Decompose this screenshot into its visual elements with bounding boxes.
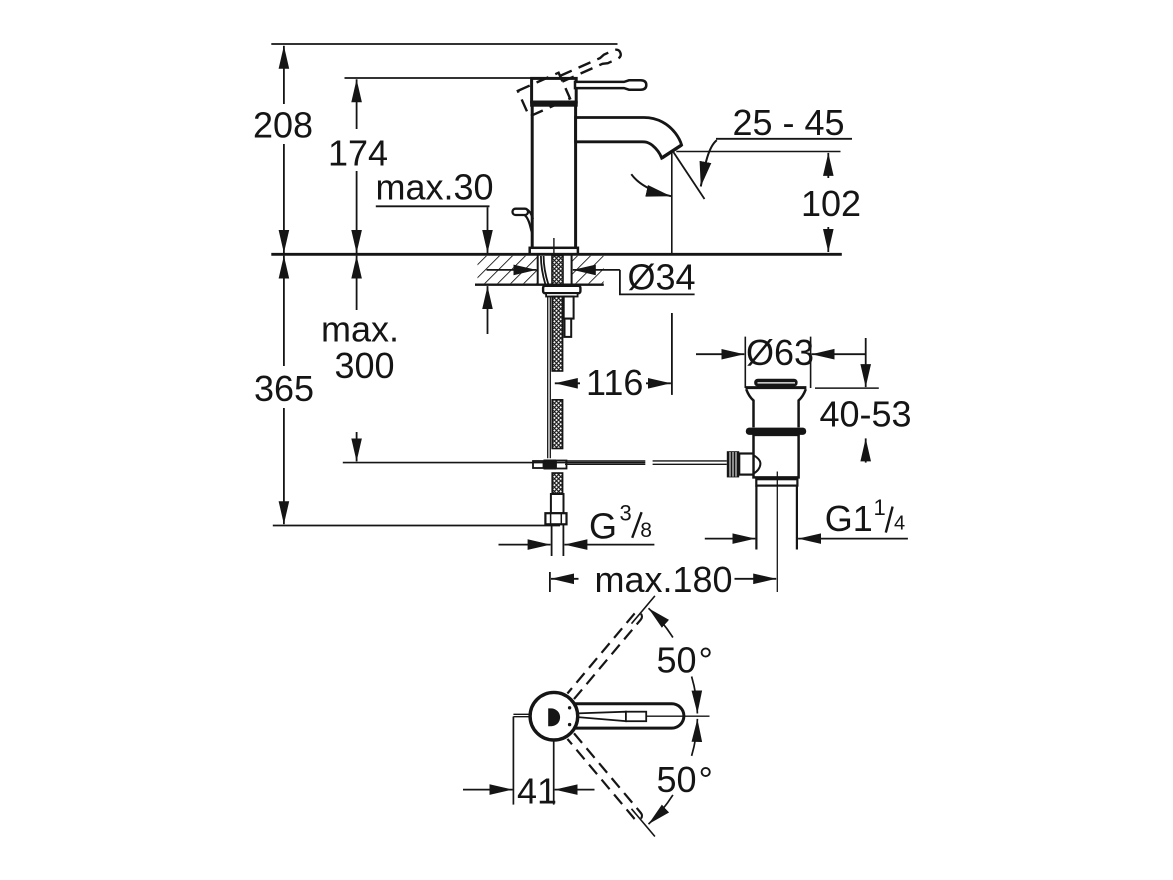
mounting nut (543, 286, 580, 293)
extension line down (632, 809, 655, 837)
max30 underline (376, 205, 490, 207)
stream angle line (674, 152, 705, 199)
116 vline (671, 313, 673, 395)
svg-text:50: 50 (657, 759, 697, 800)
horizontal pop-up linkage rod (565, 461, 727, 464)
counter hatch left (478, 256, 538, 284)
svg-text:max.30: max.30 (376, 167, 494, 208)
svg-text:116: 116 (586, 362, 643, 403)
G38 arrows (499, 544, 551, 546)
svg-text:Ø63: Ø63 (746, 332, 814, 373)
counter hole edges (538, 254, 572, 284)
hose in hole crosshatch (552, 256, 563, 285)
base flange (530, 248, 578, 254)
41 dim ticks (513, 714, 531, 716)
116 arrows (555, 382, 580, 384)
svg-text:40-53: 40-53 (820, 394, 912, 435)
25-45 underline (716, 138, 852, 140)
O63 extension lines (745, 337, 810, 388)
svg-text:max.180: max.180 (595, 559, 733, 600)
pop-up rod curve in hole (541, 256, 549, 285)
max180 left tick (549, 572, 551, 592)
svg-text:50: 50 (657, 640, 697, 681)
rod fitting (533, 461, 544, 468)
O34 arrows (487, 269, 537, 271)
outlet vertical extension line (671, 153, 673, 254)
svg-text:208: 208 (253, 105, 313, 146)
check valve (564, 297, 574, 319)
svg-text:Ø34: Ø34 (628, 257, 696, 298)
max300 reference line (343, 462, 646, 464)
hose band B (552, 400, 562, 449)
41 arrows (463, 789, 513, 791)
hose ferrule (551, 494, 564, 513)
counter top line (271, 253, 842, 256)
svg-text:25 - 45: 25 - 45 (733, 102, 845, 143)
102 top ref line (676, 151, 840, 153)
G3/8 nut (545, 513, 566, 524)
svg-text:1: 1 (874, 495, 886, 520)
hose band C (552, 473, 562, 494)
drain push button (754, 379, 797, 387)
svg-text:4: 4 (894, 513, 905, 535)
pop-up rod below counter (548, 285, 551, 459)
top view body circle (530, 692, 578, 740)
svg-text:max.: max. (321, 309, 399, 350)
drain flange top line (746, 386, 807, 389)
O34 leader (620, 270, 695, 295)
counter hatch right (572, 256, 604, 284)
50deg arc upper seg2 (692, 677, 698, 714)
max30 arrows (487, 207, 489, 253)
max180 arrows (551, 578, 579, 580)
dashed lever down 50deg (567, 733, 642, 820)
hose band A (552, 297, 562, 372)
drain flange sides (746, 389, 806, 427)
drain rubber seal (746, 428, 806, 435)
counter hole white around shank (538, 256, 572, 284)
drain collar (756, 479, 797, 485)
top view centerline (646, 715, 709, 717)
dim line 174 top (345, 77, 532, 79)
svg-text:8: 8 (640, 519, 652, 542)
spout (576, 118, 682, 159)
G114 arrows (705, 538, 756, 540)
svg-text:°: ° (699, 759, 713, 800)
spout end face (662, 145, 682, 158)
base centerline tick (553, 238, 555, 256)
knurled knob (727, 451, 739, 477)
svg-text:41: 41 (517, 770, 557, 811)
cap black band (530, 101, 578, 107)
102 vline (827, 153, 829, 178)
svg-text:365: 365 (254, 368, 314, 409)
top view handle (575, 704, 684, 728)
drain centerline (776, 472, 778, 593)
curved arrow 25-45 (701, 140, 717, 186)
handle inner slot (577, 712, 626, 722)
knob cylinder (739, 454, 753, 475)
dashed lever up 50deg (567, 612, 642, 699)
counter bottom line (475, 284, 604, 286)
50deg arc upper seg1 (649, 608, 673, 637)
50deg arc lower seg1 (649, 795, 673, 824)
ref line 365 bottom (273, 525, 560, 527)
svg-text:102: 102 (801, 183, 861, 224)
svg-text:°: ° (699, 640, 713, 681)
faucet body (532, 107, 575, 248)
faucet cartridge cap (532, 78, 577, 102)
extension line up (632, 596, 655, 624)
pop-up knob on body (513, 209, 529, 215)
dim vline 174/max300 (356, 79, 358, 129)
circle dots (568, 706, 571, 709)
40-53 vline arrows (865, 338, 867, 387)
svg-text:G: G (589, 505, 617, 546)
dim line 208 top (271, 43, 617, 45)
svg-text:3: 3 (620, 501, 632, 526)
svg-text:300: 300 (335, 345, 395, 386)
tailpipe (756, 486, 797, 550)
curved arrow stream (631, 174, 671, 196)
svg-text:G1: G1 (825, 498, 873, 539)
50deg arc lower seg2 (692, 719, 698, 756)
circle D mark (548, 708, 560, 726)
dashed handle rotated position (518, 46, 629, 116)
dim vline 208/365 (283, 46, 285, 104)
G3/8 stub pipe (552, 524, 564, 556)
O63 arrows (696, 353, 744, 355)
40-53 ref line (815, 387, 879, 389)
drain body (754, 435, 799, 478)
lever handle solid (575, 80, 646, 89)
